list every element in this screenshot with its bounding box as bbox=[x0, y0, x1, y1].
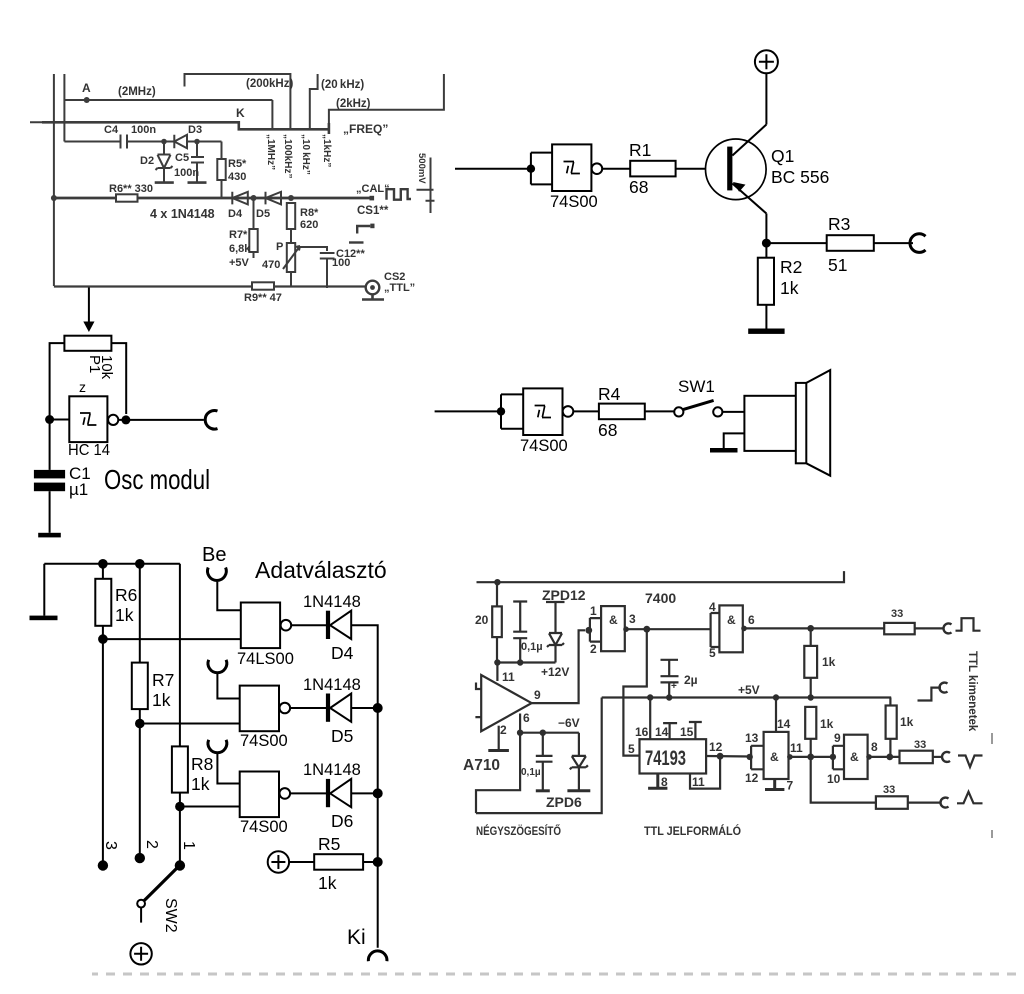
svg-text:(2kHz): (2kHz) bbox=[336, 98, 371, 110]
ground pin2 bar bbox=[488, 749, 509, 752]
node connector arc out3 bbox=[942, 752, 950, 762]
wire Be to gate 1 input bbox=[217, 582, 241, 611]
svg-text:2µ: 2µ bbox=[684, 673, 698, 687]
svg-text:100n: 100n bbox=[174, 167, 199, 179]
wire scan artifact marks bbox=[991, 733, 993, 838]
svg-text:(20 kHz): (20 kHz) bbox=[321, 79, 364, 91]
diode D3 bbox=[174, 135, 187, 148]
svg-text:„CAL“: „CAL“ bbox=[356, 183, 390, 195]
svg-text:51: 51 bbox=[828, 255, 847, 275]
node gate1 input dot bbox=[585, 627, 592, 634]
svg-text:20: 20 bbox=[475, 613, 489, 627]
wire 33 mid to connector bbox=[933, 756, 943, 758]
op-amp U2 HC14 schmitt box bbox=[69, 396, 107, 442]
svg-text:74S00: 74S00 bbox=[240, 732, 288, 750]
svg-text:Be: Be bbox=[202, 544, 226, 566]
svg-text:14: 14 bbox=[655, 725, 669, 739]
svg-text:„100kHz”: „100kHz” bbox=[282, 134, 293, 178]
svg-text:15: 15 bbox=[680, 725, 694, 739]
node connector Be bbox=[208, 568, 227, 581]
wire R2 to ground bbox=[765, 305, 767, 329]
svg-text:7400: 7400 bbox=[645, 590, 676, 606]
resistor 1k right bbox=[889, 698, 891, 706]
wire gate2 output row bbox=[743, 627, 884, 629]
svg-text:D4: D4 bbox=[228, 208, 243, 220]
wire gate3 out row bbox=[789, 756, 833, 758]
svg-text:R4: R4 bbox=[598, 384, 621, 404]
svg-text:„1MHz”: „1MHz” bbox=[265, 134, 276, 170]
svg-text:µ1: µ1 bbox=[69, 480, 88, 499]
wire bubble to R1 bbox=[602, 168, 630, 170]
svg-text:D5: D5 bbox=[256, 208, 270, 220]
wire bubble to R4 bbox=[573, 410, 599, 412]
transistor Q1 bbox=[706, 139, 767, 200]
svg-text:„1kHz”: „1kHz” bbox=[321, 134, 332, 167]
svg-text:11: 11 bbox=[692, 775, 705, 789]
node connector arc out4 bbox=[940, 798, 948, 808]
svg-text:1k: 1k bbox=[780, 278, 799, 298]
svg-text:1: 1 bbox=[180, 841, 197, 850]
diode D4 scan bbox=[232, 192, 248, 205]
svg-text:6: 6 bbox=[748, 613, 755, 627]
wire input bracket of U3 bbox=[501, 394, 523, 428]
wire CAL bus bbox=[54, 197, 372, 200]
wire collector up to supply bbox=[765, 73, 767, 124]
power +V symbol SW2 bbox=[130, 943, 151, 964]
node gate4 output bbox=[866, 754, 872, 760]
switch SW1 bbox=[674, 407, 683, 416]
wire input stubs bbox=[475, 683, 481, 718]
svg-text:2: 2 bbox=[500, 723, 507, 737]
wire gate 1 to D4 bbox=[291, 624, 326, 626]
wire 74193 pin12 out bbox=[706, 755, 751, 758]
op-amp 7400 gate2 bbox=[711, 613, 720, 647]
wire speaker to ground bbox=[724, 433, 745, 448]
svg-text:&: & bbox=[770, 750, 779, 764]
ground bbox=[38, 533, 61, 538]
resistor R6 bbox=[102, 564, 104, 579]
wire input to 74S00 bbox=[455, 168, 531, 170]
wire node to R3 bbox=[766, 242, 826, 244]
wire wiper to C12 bbox=[297, 247, 327, 251]
op-amp 7400 gate1 bbox=[590, 618, 601, 642]
wire input bracket of U1 bbox=[531, 153, 552, 185]
svg-text:„FREQ”: „FREQ” bbox=[343, 122, 388, 136]
svg-text:16: 16 bbox=[635, 725, 649, 739]
svg-text:SW1: SW1 bbox=[678, 377, 715, 396]
svg-text:11: 11 bbox=[790, 741, 803, 755]
resistor 20 bbox=[496, 582, 498, 606]
wire gate4 out row bbox=[868, 756, 900, 758]
wire output to connector bbox=[118, 419, 204, 421]
node junction right 1k bbox=[886, 754, 893, 761]
capacitor 0,1u top bbox=[513, 602, 527, 663]
svg-text:+: + bbox=[671, 681, 677, 692]
ground 0,1u bar bbox=[536, 789, 550, 792]
svg-text:„10 kHz”: „10 kHz” bbox=[300, 134, 311, 175]
node 1k top junction bbox=[807, 625, 814, 632]
wire K bus bbox=[42, 122, 329, 129]
svg-text:430: 430 bbox=[228, 171, 246, 183]
wire R5 to bus bbox=[363, 861, 378, 863]
svg-text:P: P bbox=[276, 241, 283, 253]
svg-text:TTL kimenetek: TTL kimenetek bbox=[966, 651, 978, 732]
svg-text:&: & bbox=[727, 613, 736, 627]
svg-text:Q1: Q1 bbox=[771, 146, 794, 166]
wire output to 7400 gate1 bbox=[532, 630, 585, 703]
waveform positive spike bbox=[957, 792, 983, 804]
node output bubble bbox=[592, 163, 603, 174]
node output connector arc bbox=[910, 234, 926, 253]
node rail junction 1 bbox=[98, 559, 108, 569]
node R7 bottom junction bbox=[135, 719, 145, 729]
resistor 33 mid bbox=[900, 751, 933, 764]
wire +12V node rail bbox=[497, 661, 556, 663]
wire bottom rail bbox=[54, 285, 366, 287]
svg-text:1k: 1k bbox=[191, 774, 210, 794]
svg-text:4 x 1N4148: 4 x 1N4148 bbox=[150, 207, 215, 221]
svg-text:5: 5 bbox=[628, 742, 635, 756]
node output bubble bbox=[108, 415, 118, 425]
svg-text:74S00: 74S00 bbox=[520, 437, 568, 455]
resistor 33 bottom bbox=[876, 796, 908, 809]
wire P1 left to input node bbox=[50, 343, 65, 419]
node input junction bbox=[45, 415, 54, 424]
svg-text:3: 3 bbox=[102, 841, 119, 850]
wire connector to gate 2 input bbox=[217, 674, 239, 699]
wire 2kHz run bbox=[329, 74, 444, 129]
node junction left 1k bbox=[807, 754, 814, 761]
svg-text:1N4148: 1N4148 bbox=[303, 593, 361, 611]
svg-text:6,8k: 6,8k bbox=[229, 243, 251, 255]
node output bubble bbox=[563, 406, 574, 417]
wire R1 to Q1 base bbox=[676, 168, 706, 170]
svg-text:SW2: SW2 bbox=[162, 898, 179, 933]
node output junction bbox=[121, 415, 130, 424]
wire 200kHz bracket bbox=[185, 74, 291, 129]
wire C4 to D3 bbox=[127, 141, 174, 143]
svg-text:68: 68 bbox=[598, 420, 617, 440]
power +V symbol bbox=[755, 50, 778, 73]
svg-text:2: 2 bbox=[143, 840, 160, 849]
node connector arc out2 bbox=[940, 683, 948, 693]
node R620 junction bbox=[288, 195, 294, 201]
node connector gate2 bbox=[208, 660, 227, 673]
wire R7 node to gate 2 input bbox=[140, 723, 240, 725]
svg-text:D2: D2 bbox=[140, 155, 154, 167]
svg-text:1k: 1k bbox=[115, 605, 134, 625]
ground D2 bar bbox=[155, 181, 174, 184]
wire SW1 to speaker bbox=[722, 411, 744, 413]
svg-text:z: z bbox=[79, 379, 86, 395]
wire D2 to bar bbox=[163, 168, 165, 183]
svg-text:7: 7 bbox=[787, 779, 794, 793]
svg-text:14: 14 bbox=[777, 717, 791, 731]
wire left vertical 1 bbox=[53, 74, 55, 286]
svg-text:R8: R8 bbox=[191, 754, 213, 774]
resistor 1k top bbox=[810, 628, 812, 646]
node terminal 3 bbox=[98, 860, 108, 870]
svg-text:D3: D3 bbox=[188, 124, 202, 136]
svg-text:4: 4 bbox=[709, 600, 716, 614]
svg-text:68: 68 bbox=[629, 177, 648, 197]
resistor 1k left bbox=[805, 707, 816, 739]
wire 74193 pin8 ground bbox=[648, 774, 667, 789]
node emitter junction bbox=[762, 239, 771, 248]
node CAL end bbox=[370, 196, 375, 201]
svg-text:K: K bbox=[236, 106, 245, 120]
svg-text:−6V: −6V bbox=[558, 716, 580, 730]
svg-text:1k: 1k bbox=[820, 717, 834, 731]
wire D6 to bus bbox=[351, 792, 378, 794]
svg-text:A: A bbox=[82, 81, 91, 95]
waveform square CAL bbox=[387, 189, 412, 200]
node D2 junction bbox=[161, 139, 167, 145]
svg-text:Osc modul: Osc modul bbox=[104, 464, 210, 495]
svg-text:1k: 1k bbox=[822, 655, 836, 669]
svg-text:&: & bbox=[850, 750, 859, 764]
svg-text:470: 470 bbox=[262, 259, 280, 271]
svg-text:0,1µ: 0,1µ bbox=[521, 641, 543, 653]
waveform square out1 bbox=[956, 618, 981, 631]
svg-text:74193: 74193 bbox=[645, 747, 686, 770]
wire connector to gate 3 input bbox=[217, 754, 239, 784]
svg-text:1N4148: 1N4148 bbox=[303, 676, 361, 694]
diode D5 scan bbox=[266, 192, 282, 205]
wire R6 node to gate 1 input bbox=[103, 638, 241, 640]
svg-text:100: 100 bbox=[332, 257, 350, 269]
wire rail to ground bbox=[43, 564, 45, 616]
capacitor C5 bbox=[191, 142, 204, 183]
node gate4 input dot bbox=[830, 754, 836, 760]
op-amp 7400 gate3 bbox=[751, 746, 764, 770]
svg-text:8: 8 bbox=[661, 775, 668, 789]
wire pin11 lead bbox=[496, 663, 498, 682]
svg-text:HC 14: HC 14 bbox=[68, 442, 110, 459]
svg-text:R9** 47: R9** 47 bbox=[244, 292, 282, 304]
op-amp U6 74S00 box bbox=[240, 772, 279, 818]
resistor 33 top bbox=[884, 623, 915, 634]
svg-text:R8*: R8* bbox=[300, 207, 319, 219]
wire to 74193 pin5 bbox=[623, 629, 646, 755]
node R8 bottom junction bbox=[175, 802, 185, 812]
switch SW2 bbox=[144, 867, 179, 901]
resistor R5 bbox=[314, 854, 363, 870]
diode D2 zener bbox=[156, 142, 173, 171]
wire pin6 lead bbox=[519, 714, 521, 733]
resistor R8 bbox=[179, 564, 181, 747]
wire 74193 pin15 T bbox=[689, 722, 702, 739]
resistor R1 bbox=[630, 161, 675, 177]
resistor R2 bbox=[758, 258, 774, 305]
node connector gate3 bbox=[208, 740, 227, 753]
resistor R9 47 bbox=[252, 282, 274, 289]
svg-text:C4: C4 bbox=[104, 124, 119, 136]
wire D5 to bus bbox=[351, 707, 378, 709]
svg-text:R5: R5 bbox=[318, 834, 340, 854]
wire bottom long rail bbox=[476, 698, 602, 814]
diode ZPD12 zener bbox=[546, 602, 565, 663]
wire branch to bottom 33 bbox=[811, 757, 876, 803]
svg-text:9: 9 bbox=[834, 731, 841, 745]
svg-text:100n: 100n bbox=[131, 124, 156, 136]
svg-text:5: 5 bbox=[709, 646, 716, 660]
node gate3 input dot bbox=[747, 754, 753, 760]
wire emitter down bbox=[765, 214, 767, 258]
wire bottom faint scan line bbox=[92, 973, 1024, 976]
node gate3 output bbox=[787, 754, 793, 760]
svg-text:8: 8 bbox=[871, 740, 878, 754]
node bus junction D6 bbox=[373, 788, 383, 798]
resistor R6 330 bbox=[116, 194, 138, 201]
svg-text:D4: D4 bbox=[331, 643, 354, 663]
wire 500mV bracket bbox=[417, 158, 435, 214]
wire gate3 pin7 ground bbox=[765, 779, 784, 790]
wire input to 74S00 bbox=[435, 410, 501, 412]
node gate1 out junction bbox=[643, 626, 650, 633]
node gate 1 output bubble bbox=[281, 620, 292, 631]
svg-text:+5V: +5V bbox=[738, 683, 760, 697]
svg-text:1k: 1k bbox=[900, 715, 914, 729]
node connector Ki bbox=[368, 951, 387, 961]
svg-text:Adatválasztó: Adatválasztó bbox=[255, 557, 387, 583]
wire cross tick bbox=[30, 121, 62, 123]
node terminal 2 bbox=[135, 853, 145, 863]
svg-text:D5: D5 bbox=[331, 726, 353, 746]
op-amp U1 74S00 schmitt inverter box bbox=[552, 144, 591, 191]
node connector arc out1 bbox=[943, 623, 951, 633]
wire +5V rail bbox=[602, 696, 892, 698]
node D3 junction bbox=[194, 139, 200, 145]
wire P1 right to output node bbox=[111, 343, 126, 414]
wire gate 3 to D6 bbox=[290, 792, 326, 794]
wire A line bbox=[64, 100, 272, 129]
svg-text:1k: 1k bbox=[318, 873, 337, 893]
wire 33 bottom to connector bbox=[908, 801, 941, 803]
wire pin2 ground lead bbox=[498, 726, 500, 750]
svg-text:500mV: 500mV bbox=[416, 153, 427, 184]
svg-text:1k: 1k bbox=[152, 690, 171, 710]
capacitor 0,1u lower bbox=[536, 733, 553, 791]
svg-text:(200kHz): (200kHz) bbox=[246, 78, 293, 90]
op-amp A710 comparator bbox=[481, 675, 531, 731]
op-amp U5 74S00 box bbox=[240, 686, 279, 732]
svg-text:R3: R3 bbox=[828, 214, 850, 234]
node bus junction D5 bbox=[373, 703, 383, 713]
node bus junction R5 bbox=[373, 857, 383, 867]
waveform CS1 mark bbox=[357, 226, 370, 234]
ground C5 bar bbox=[188, 181, 207, 184]
capacitor C4 bbox=[121, 135, 128, 149]
svg-text:ZPD12: ZPD12 bbox=[542, 587, 586, 603]
capacitor C1 bbox=[34, 470, 65, 479]
node rail dots bbox=[494, 659, 500, 665]
node rail junction 2 bbox=[135, 559, 145, 569]
wire top rail bbox=[44, 563, 180, 565]
svg-text:CS1**: CS1** bbox=[357, 205, 389, 217]
svg-text:TTL JELFORMÁLÓ: TTL JELFORMÁLÓ bbox=[644, 823, 741, 838]
speaker LS1 bbox=[744, 396, 797, 451]
svg-text:R1: R1 bbox=[629, 140, 651, 160]
node gate 3 output bubble bbox=[280, 788, 291, 799]
ground bbox=[30, 616, 58, 621]
wire node to HC14 bbox=[50, 419, 70, 421]
node top rail junction bbox=[494, 579, 500, 585]
svg-text:R7*: R7* bbox=[229, 229, 248, 241]
wire C1 to ground bbox=[49, 491, 51, 533]
svg-text:R6: R6 bbox=[115, 585, 137, 605]
svg-text:+5V: +5V bbox=[229, 257, 250, 269]
capacitor C12 bbox=[320, 253, 335, 288]
wire D3 to R430 bbox=[187, 141, 222, 143]
resistor R8 620 bbox=[287, 203, 295, 229]
power +V symbol R5 bbox=[268, 851, 289, 872]
wire 20kHz drop bbox=[310, 74, 318, 129]
capacitor 2u bbox=[661, 660, 679, 698]
node D4-D5 junction bbox=[251, 195, 257, 201]
svg-text:11: 11 bbox=[502, 670, 515, 684]
op-amp 7400 gate4 bbox=[833, 746, 844, 770]
svg-text:33: 33 bbox=[891, 608, 903, 620]
wire R3 to output connector bbox=[874, 242, 913, 244]
diode D6 bbox=[326, 779, 330, 807]
svg-text:13: 13 bbox=[745, 731, 759, 745]
node gate 2 output bubble bbox=[280, 703, 291, 714]
resistor R430 bbox=[221, 142, 223, 160]
svg-text:12: 12 bbox=[709, 740, 723, 754]
svg-text:R2: R2 bbox=[780, 257, 802, 277]
svg-text:1: 1 bbox=[590, 604, 597, 618]
wire +V to R5 bbox=[289, 861, 314, 863]
svg-text:+12V: +12V bbox=[541, 665, 569, 679]
svg-text:33: 33 bbox=[883, 784, 895, 796]
resistor R4 bbox=[599, 404, 645, 420]
svg-text:1N4148: 1N4148 bbox=[303, 761, 361, 779]
svg-text:74LS00: 74LS00 bbox=[237, 650, 294, 668]
waveform negative spike bbox=[958, 756, 983, 768]
potentiometer P1 bbox=[64, 336, 111, 351]
svg-text:BC 556: BC 556 bbox=[771, 167, 829, 187]
wire gate1 output bbox=[625, 628, 711, 630]
svg-text:0,1µ: 0,1µ bbox=[521, 767, 541, 778]
wire node to C1 bbox=[49, 420, 51, 470]
connector CS2 TTL bbox=[366, 281, 380, 295]
svg-text:R6** 330: R6** 330 bbox=[109, 183, 153, 195]
node gate2 output bbox=[741, 626, 747, 632]
ground ZPD6 bar bbox=[567, 789, 590, 792]
node input junction bbox=[527, 165, 535, 173]
svg-text:74S00: 74S00 bbox=[550, 193, 598, 211]
wire pin6 down path bbox=[476, 733, 520, 813]
svg-text:620: 620 bbox=[300, 219, 318, 231]
svg-text:(2MHz): (2MHz) bbox=[118, 86, 156, 98]
op-amp U3 74S00 schmitt box bbox=[523, 388, 562, 435]
wire R4 to SW1 bbox=[645, 410, 674, 412]
node gate1 output bbox=[623, 626, 629, 632]
potentiometer P 470 bbox=[290, 229, 292, 243]
node pin12 junction bbox=[717, 753, 724, 760]
svg-text:Ki: Ki bbox=[347, 926, 366, 949]
svg-text:ZPD6: ZPD6 bbox=[546, 794, 582, 810]
svg-text:74S00: 74S00 bbox=[240, 818, 288, 836]
wire 74193 pin11 loop bbox=[690, 756, 720, 788]
node A bbox=[84, 97, 90, 103]
node connector arc bbox=[205, 410, 217, 429]
node FREQ end tick bbox=[328, 123, 331, 134]
svg-text:D6: D6 bbox=[331, 811, 353, 831]
wire -6V rail bbox=[520, 732, 579, 734]
svg-text:R5*: R5* bbox=[228, 158, 247, 170]
